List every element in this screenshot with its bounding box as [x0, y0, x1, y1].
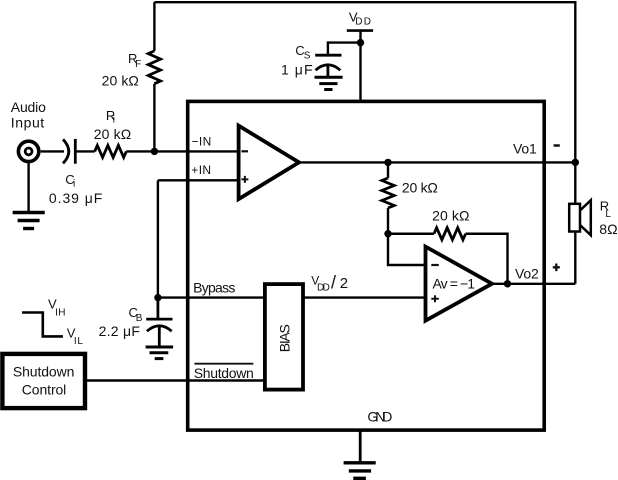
svg-text:i: i [73, 178, 75, 189]
label: U1 minus input [241, 150, 248, 152]
svg-text:Av = −1: Av = −1 [433, 276, 476, 292]
svg-text:S: S [304, 50, 311, 61]
wire: bypass node to BIAS box [158, 296, 266, 298]
svg-text:/: / [331, 273, 336, 293]
wire: 20k vertical top lead from Vo1 [387, 162, 389, 178]
svg-text:Shutdown: Shutdown [13, 364, 75, 380]
svg-text:Vo1: Vo1 [513, 141, 537, 157]
capacitor CB 2.2uF [146, 298, 172, 347]
wire: +IN horizontal [158, 179, 239, 181]
wire: right rail lower (speaker plus to Vo2) [574, 232, 576, 284]
svg-text:Audio: Audio [11, 99, 46, 115]
svg-text:−IN: −IN [192, 135, 212, 149]
svg-text:Shutdown: Shutdown [194, 365, 254, 381]
junction: Vo2 node [504, 280, 511, 287]
svg-text:DD: DD [355, 17, 371, 28]
svg-text:Input: Input [11, 114, 45, 130]
svg-text:Bypass: Bypass [193, 280, 235, 296]
svg-text:2: 2 [340, 275, 348, 292]
label: U1 plus input [241, 176, 248, 183]
wire: connector to Ci [41, 150, 64, 152]
svg-text:1 μF: 1 μF [281, 62, 313, 78]
svg-text:2.2 μF: 2.2 μF [99, 323, 140, 339]
svg-text:i: i [113, 115, 115, 126]
wire: node B to feedback resistor [388, 233, 434, 235]
junction: right rail Vo1 [572, 159, 579, 166]
ground for CS [315, 77, 343, 89]
wire: top feedback rail [154, 1, 575, 3]
wire: BIAS VDD/2 output to op-amp U2 + input [303, 296, 426, 298]
wire: feedback resistor to Vo2 node [466, 234, 508, 284]
svg-text:IL: IL [74, 336, 83, 347]
wire: RF bottom lead to input node [153, 84, 155, 152]
shutdown logic waveform [22, 313, 63, 337]
resistor 20k feedback (horizontal zigzag) [434, 228, 466, 240]
wire: VDD stem into IC [359, 31, 361, 102]
BIAS box [265, 284, 303, 390]
svg-text:GND: GND [367, 409, 392, 425]
capacitor Ci 0.39uF [63, 139, 75, 164]
wire: +IN vertical down to bypass node [157, 180, 159, 297]
wire: Ci to Ri [75, 150, 94, 152]
op-amp U1 [239, 126, 299, 200]
resistor 20k vertical from Vo1 (zigzag) [382, 178, 394, 208]
svg-text:L: L [605, 209, 611, 220]
label: U2 minus input [431, 264, 439, 266]
resistor Ri 20k (horizontal zigzag) [95, 145, 127, 157]
capacitor CS 1uF [315, 55, 341, 77]
label: U2 plus input [431, 295, 439, 302]
svg-text:+IN: +IN [191, 163, 211, 177]
svg-text:IH: IH [55, 308, 65, 319]
junction: VDD node [357, 39, 364, 46]
ground for IC GND pin [344, 430, 376, 478]
svg-text:BIAS: BIAS [277, 324, 293, 352]
svg-text:20 kΩ: 20 kΩ [102, 73, 139, 89]
svg-text:F: F [135, 59, 141, 70]
svg-text:20 kΩ: 20 kΩ [432, 208, 469, 224]
junction: node B between resistors [384, 230, 391, 237]
shutdown control box [2, 354, 85, 408]
wire: 20k vertical bottom lead to node B [387, 208, 389, 234]
resistor RF 20k (vertical zigzag) [148, 51, 160, 84]
junction: Vo1 node [384, 159, 391, 166]
wire: right rail upper (feedback to speaker minus) [574, 1, 576, 204]
svg-text:0.39 μF: 0.39 μF [49, 190, 102, 206]
svg-text:DD: DD [317, 283, 330, 294]
wire: VDD node to CS [328, 43, 361, 56]
junction: input node [151, 148, 158, 155]
svg-text:Vo2: Vo2 [515, 265, 539, 281]
label: speaker plus terminal [553, 264, 560, 272]
svg-text:8 Ω: 8 Ω [599, 221, 617, 237]
wire: RF top lead [153, 2, 155, 51]
wire: Ri to -IN of op-amp U1 [126, 150, 238, 152]
svg-text:20 kΩ: 20 kΩ [402, 179, 438, 195]
VDD supply bar [347, 29, 373, 32]
audio input connector [18, 141, 38, 161]
op-amp U2 (Av=-1) [426, 247, 493, 321]
overline for Shutdown [194, 363, 253, 365]
ground for CB [146, 347, 174, 359]
wire: Vo2 output line [492, 283, 575, 285]
svg-text:20 kΩ: 20 kΩ [94, 126, 132, 142]
label: speaker minus terminal [554, 144, 560, 147]
svg-text:Control: Control [22, 381, 67, 397]
IC boundary box [188, 101, 545, 430]
junction: bypass node [154, 294, 161, 301]
wire: Vo1 output line [299, 161, 575, 163]
speaker RL [569, 200, 591, 235]
wire: node B down and right to U2 - input [388, 234, 426, 265]
wire: shutdown control to BIAS box [85, 379, 266, 381]
ground for audio input connector [13, 162, 45, 229]
